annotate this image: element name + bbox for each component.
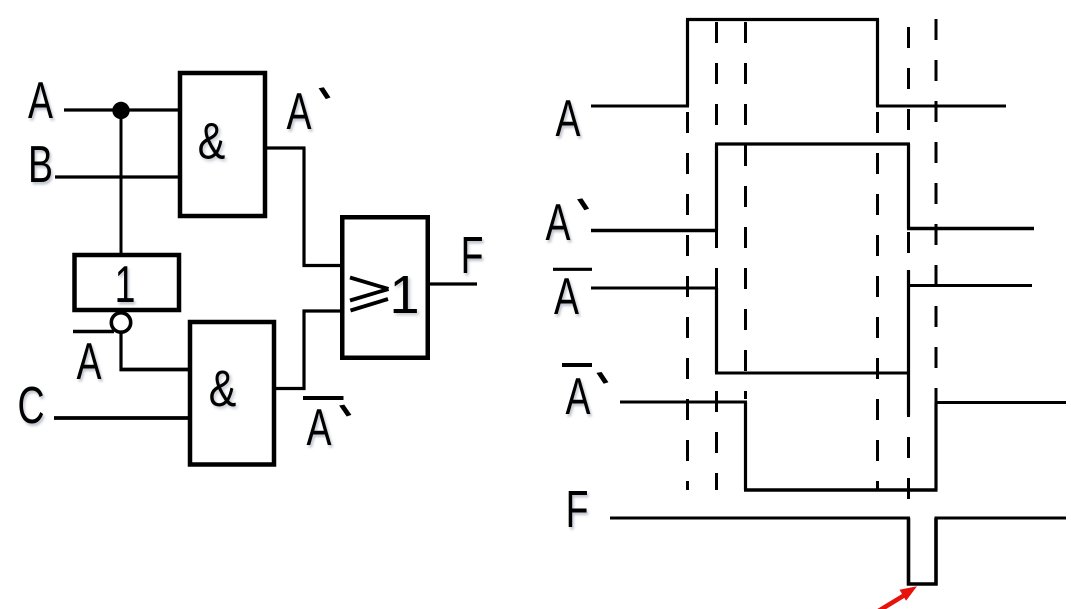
node label Abar` overline (303, 396, 344, 400)
wire G3 to OR vertical (302, 310, 305, 391)
junction dot on A (112, 102, 129, 119)
waveform Abar low (715, 372, 910, 375)
waveform Abar falling edge (715, 288, 718, 373)
dashed marker t1 (686, 112, 689, 490)
svg-text:A: A (556, 89, 582, 148)
dashed marker t5 (907, 27, 910, 518)
waveform label Abar` overline (562, 363, 592, 367)
waveform A low left (591, 105, 689, 108)
svg-text:A: A (77, 332, 103, 391)
waveform Abar rising edge (907, 270, 910, 415)
waveform label Abar overline (553, 268, 592, 271)
waveform Abar` high right (935, 401, 1067, 404)
svg-text:A: A (287, 82, 313, 141)
svg-text:F: F (461, 226, 484, 285)
svg-text:1: 1 (389, 265, 419, 325)
wire junction to inverter (120, 110, 123, 255)
waveform A` falling edge (907, 144, 910, 229)
waveform F glitch rising edge (934, 518, 938, 586)
node label Abar overline (73, 330, 114, 334)
svg-text:A: A (566, 367, 592, 426)
svg-text:A: A (28, 71, 54, 130)
wire inverter output down (119, 332, 122, 371)
waveform F glitch bottom (907, 582, 938, 586)
svg-text:A: A (546, 193, 572, 252)
wire input A (64, 108, 180, 111)
waveform A rising edge (686, 20, 689, 107)
waveform A` rising edge (715, 144, 718, 231)
waveform label A` (546, 193, 590, 252)
svg-text:&: & (198, 112, 226, 169)
and-gate G3 box (190, 322, 274, 465)
wire into OR bottom input (303, 309, 343, 312)
wire G1 to OR vertical (302, 148, 305, 267)
wire G1 output (265, 146, 306, 149)
dashed marker t2 (715, 22, 718, 490)
or-gate G4 symbol >=1 (350, 265, 420, 325)
svg-text:F: F (566, 480, 589, 539)
waveform A falling edge (876, 20, 879, 107)
waveform Abar` falling edge (744, 402, 747, 490)
waveform label Abar` (566, 367, 609, 426)
wire input B (55, 175, 180, 178)
waveform Abar high left (591, 287, 718, 290)
wire input C (54, 416, 190, 420)
wire inverter to G3 (120, 368, 191, 372)
waveform Abar` rising edge (934, 403, 937, 491)
svg-text:A: A (307, 398, 333, 457)
waveform A` low right (907, 227, 1034, 231)
waveform A` high (715, 142, 910, 145)
inverter G2 output bubble (111, 313, 130, 332)
waveform A low right (876, 105, 1006, 108)
svg-text:A: A (554, 267, 580, 326)
dashed marker t6 (935, 19, 938, 403)
waveform F glitch falling edge (907, 518, 911, 586)
waveform Abar high right (907, 284, 1032, 287)
node label Abar` (307, 398, 352, 457)
node label A` (287, 82, 331, 141)
dashed marker t4 (876, 112, 879, 490)
wire G4 output F (428, 282, 477, 285)
waveform A high (686, 18, 879, 21)
waveform F high right (935, 517, 1067, 520)
svg-text:1: 1 (115, 255, 136, 314)
glitch pointer red arrow (876, 586, 917, 609)
or-gate G4 box (342, 217, 428, 358)
wire into OR top input (303, 264, 343, 267)
inverter G2 box (75, 255, 180, 310)
waveform Abar` low (744, 488, 938, 492)
waveform Abar` high left (620, 401, 747, 404)
wire G3 output (274, 387, 306, 390)
svg-text:&: & (209, 360, 237, 417)
and-gate G1 box (180, 73, 265, 216)
svg-text:B: B (28, 135, 53, 194)
waveform F high left (610, 517, 910, 520)
waveform A` low left (591, 229, 718, 233)
svg-text:C: C (17, 376, 44, 435)
dashed marker t3 (744, 22, 747, 399)
